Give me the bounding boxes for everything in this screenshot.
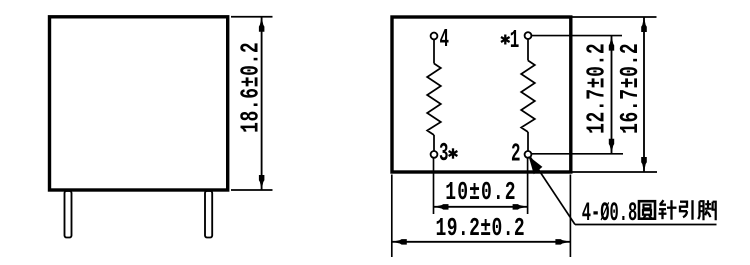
svg-text:4: 4 [440, 26, 450, 55]
svg-text:10±0.2: 10±0.2 [445, 178, 516, 207]
svg-text:4-Ø0.8: 4-Ø0.8 [582, 198, 637, 229]
svg-text:18.6±0.2: 18.6±0.2 [237, 42, 266, 133]
svg-text:12.7±0.2: 12.7±0.2 [583, 43, 612, 134]
svg-text:3: 3 [439, 140, 449, 169]
svg-text:19.2±0.2: 19.2±0.2 [436, 214, 526, 243]
svg-text:1: 1 [510, 27, 520, 56]
svg-text:2: 2 [511, 140, 521, 169]
svg-text:16.7±0.2: 16.7±0.2 [616, 43, 645, 134]
